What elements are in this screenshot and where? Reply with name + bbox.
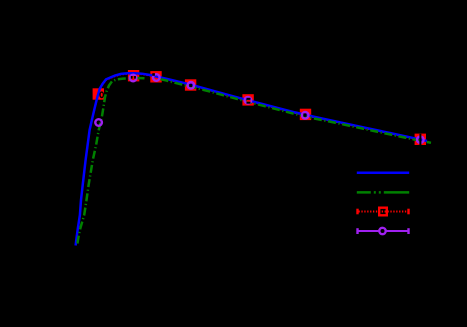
svg-text:train err: train err [414, 207, 449, 218]
svg-text:train: train [414, 168, 433, 179]
green dash-dot curve [77, 78, 431, 243]
red square marker M4 [185, 79, 196, 90]
red square marker M7 [415, 134, 426, 145]
magenta circle marker C4 [188, 82, 195, 89]
svg-text:test err: test err [414, 227, 446, 238]
annotation digit at M7 [419, 134, 421, 145]
legend entry 4: magenta errorbar with circle [356, 228, 358, 234]
blue solid curve [76, 73, 427, 245]
annotation digit at M1 [100, 92, 103, 97]
legend entry 2: green dashdot line [357, 191, 409, 194]
annotation digit at M3 [152, 73, 155, 76]
svg-text:test: test [414, 188, 430, 199]
annotation digit at M2 [131, 76, 133, 79]
red square marker M6 [300, 109, 311, 120]
red square marker M2 [128, 70, 139, 81]
magenta circle marker C2 [130, 75, 137, 82]
red square marker M1 [93, 88, 104, 99]
annotation digit at M4 [189, 84, 192, 87]
magenta circle marker C5 [245, 97, 252, 104]
annotation digit at M6 [303, 113, 306, 116]
magenta circle marker C7 [417, 136, 424, 143]
red square marker M3 [150, 71, 161, 82]
legend entry 1: blue line [357, 172, 409, 175]
magenta circle marker C3 [153, 74, 160, 81]
red square marker M5 [242, 94, 253, 105]
red dotted curve (mostly hidden beneath blue/green) [76, 74, 427, 245]
legend entry 3: red dotted errorbar with square [356, 209, 358, 215]
magenta circle marker C1 [95, 119, 102, 126]
annotation digit at M5 [247, 98, 251, 100]
magenta circle marker C6 [302, 112, 309, 119]
